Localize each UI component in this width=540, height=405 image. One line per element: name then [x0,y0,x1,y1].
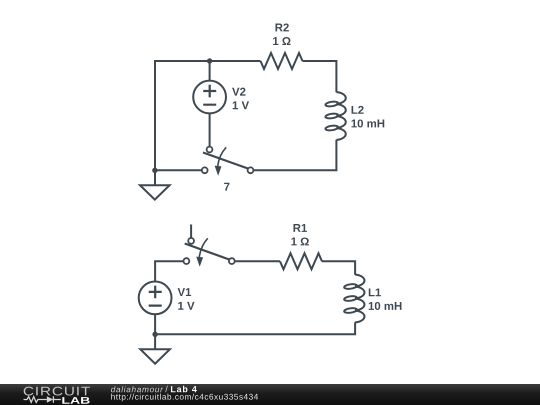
wire: R1 to top-right corner down to L1 [322,261,355,274]
wire: R2 right to top-right corner down to L2 [303,61,337,92]
footer text: url [111,394,258,402]
SW1 arrowhead [196,257,203,267]
footer text: daliahamour / Lab 4 [111,386,163,392]
wire: V2 minus to SW2 common [209,113,211,147]
SW2 left throw terminal [202,167,208,173]
SW1 left throw terminal [184,258,190,264]
SW2 right throw terminal [248,167,254,173]
ground (bottom circuit) [140,349,170,364]
junction node B (ground rail, top circuit) [152,168,157,173]
label R2 [275,23,288,31]
resistor R1 [280,224,322,269]
switch SW2 (common to right throw closed), label 7 [202,147,254,191]
wire: V1 minus to ground [154,314,156,349]
SW2 common terminal [207,147,213,153]
value 1 Ohm (R1) [291,237,308,245]
inductor L1, 10 mH [344,275,402,323]
value 10 mH (L1) [369,302,402,310]
wire: node A to V2 plus [209,61,211,81]
L1 coil winding [355,275,364,323]
SW2 lever [203,153,248,169]
label L1 [369,288,381,296]
wire: SW1 common stub [190,225,192,239]
label R1 [293,224,306,232]
ground (top circuit) [140,185,170,199]
resistor R2 [261,23,303,69]
switch SW1 (common to right throw closed) [184,238,235,267]
value 1 Ohm (R2) [273,37,290,45]
SW1 common terminal [188,238,194,244]
junction node C (ground rail, bottom circuit) [152,332,157,337]
SW1 actuation arrow arc [199,238,208,257]
CircuitLab logo schematic squiggle (resistor + diode) [24,396,61,402]
wire: L1 bottom along bottom rail to V1 minus [155,322,355,334]
label 7 (SW2 switch time) [224,183,229,191]
value 1 V (V2) [233,101,249,109]
SW2 arrowhead [215,166,222,176]
label L2 [352,106,364,114]
L2 coil winding [336,92,345,140]
wire: SW1 right terminal to R1 [235,260,280,262]
voltage source V1, 1 V [139,282,195,315]
inductor L2, 10 mH [325,92,384,140]
SW2 actuation arrow arc [218,147,227,166]
value 1 V (V1) [178,302,194,310]
wire: top rail and left rail of top circuit [155,61,261,185]
wire: L2 bottom to bottom-right corner to SW2 right terminal [253,140,336,171]
SW1 lever [185,244,230,260]
CircuitLab logo wordmark LAB [62,397,89,404]
wire: V1 plus up and right to SW1 left terminal [155,261,184,282]
value 10 mH (L2) [352,119,385,127]
footer bar [0,384,540,405]
junction node A [207,58,212,63]
label V2 [232,88,245,96]
wire: SW2 left terminal to left rail [155,169,202,171]
label V1 [178,288,192,296]
voltage source V2, 1 V [193,81,249,114]
SW1 right throw terminal [229,258,235,264]
CircuitLab logo wordmark CIRCUIT [24,387,90,396]
